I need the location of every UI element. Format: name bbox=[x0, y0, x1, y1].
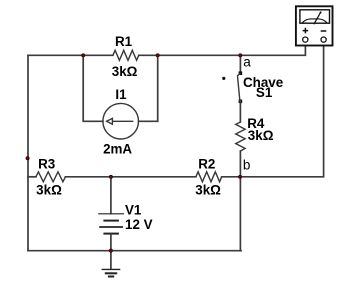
svg-text:V1: V1 bbox=[125, 202, 142, 217]
svg-text:R1: R1 bbox=[115, 34, 133, 49]
wire bbox=[240, 43, 324, 177]
wire bbox=[28, 54, 113, 56]
node junction bbox=[109, 249, 112, 252]
wire bbox=[110, 251, 112, 269]
svg-text:S1: S1 bbox=[256, 85, 273, 100]
svg-text:2mA: 2mA bbox=[103, 142, 132, 157]
wire bbox=[110, 234, 112, 250]
svg-text:3kΩ: 3kΩ bbox=[195, 183, 221, 198]
battery V1 bbox=[98, 202, 152, 233]
wire bbox=[239, 177, 241, 251]
resistor R1 bbox=[112, 34, 139, 79]
svg-text:a: a bbox=[243, 54, 251, 69]
current source I1 bbox=[103, 87, 139, 157]
resistor R2 bbox=[195, 156, 221, 197]
wire bbox=[239, 151, 241, 177]
wire bbox=[65, 176, 196, 178]
svg-text:b: b bbox=[243, 158, 251, 173]
svg-text:3kΩ: 3kΩ bbox=[36, 182, 62, 197]
wire bbox=[83, 55, 103, 121]
node a bbox=[239, 54, 252, 70]
resistor R3 bbox=[36, 156, 66, 197]
resistor R4 bbox=[236, 116, 274, 151]
wire bbox=[239, 101, 241, 122]
wire bbox=[28, 176, 36, 178]
wire bbox=[139, 54, 241, 56]
switch S1 bbox=[222, 71, 283, 103]
wire bbox=[222, 176, 240, 178]
svg-text:12 V: 12 V bbox=[125, 217, 153, 232]
wire bbox=[27, 55, 29, 250]
svg-text:R3: R3 bbox=[38, 156, 55, 171]
node junction bbox=[156, 54, 159, 57]
multimeter U1 bbox=[296, 6, 333, 45]
svg-text:I1: I1 bbox=[115, 87, 127, 102]
node junction bbox=[26, 157, 29, 160]
svg-text:3kΩ: 3kΩ bbox=[112, 64, 138, 79]
wire bbox=[110, 177, 112, 214]
wire bbox=[28, 250, 241, 252]
wire bbox=[240, 43, 305, 56]
wire bbox=[239, 55, 241, 72]
node b bbox=[238, 158, 250, 179]
svg-text:R2: R2 bbox=[198, 156, 215, 171]
node junction bbox=[109, 175, 112, 178]
node junction bbox=[82, 54, 85, 57]
svg-text:3kΩ: 3kΩ bbox=[248, 128, 274, 143]
ground bbox=[102, 269, 121, 276]
wire bbox=[139, 55, 158, 121]
